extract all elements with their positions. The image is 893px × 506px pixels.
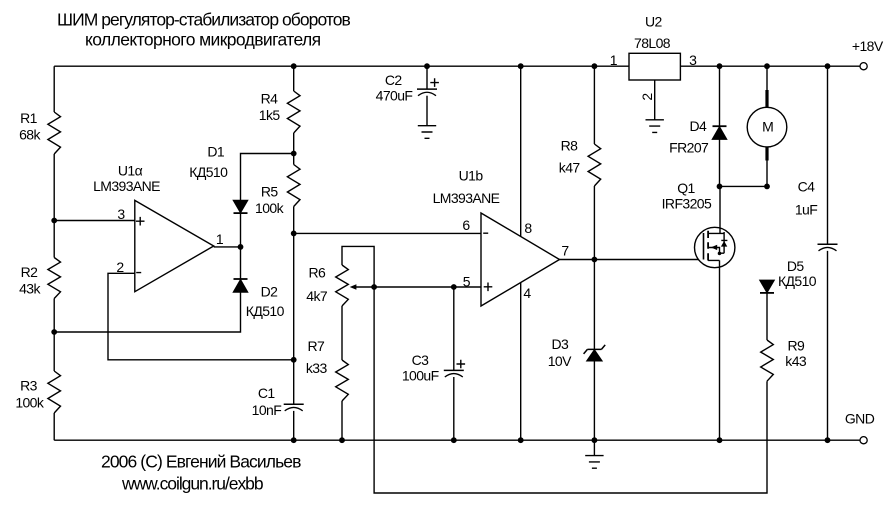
svg-text:R6: R6	[308, 265, 326, 281]
resistor R5	[287, 165, 300, 207]
node R7 bottom rail	[339, 437, 345, 443]
node pin7/R8/D3 junction	[592, 257, 598, 263]
node Q1 source bottom rail	[717, 437, 723, 443]
node R4 top rail	[291, 63, 297, 69]
svg-text:10V: 10V	[548, 353, 572, 369]
svg-text:R5: R5	[261, 184, 279, 200]
wire C3 bottom	[453, 377, 455, 440]
wire pin 4 supply	[520, 283, 522, 441]
node R5/pin6 junction	[291, 231, 297, 237]
wire pin 7 output	[560, 259, 704, 261]
potentiometer R6	[336, 265, 349, 306]
wire R6-R7	[341, 306, 343, 360]
resistor R3	[48, 371, 61, 413]
transistor Q1 body	[695, 227, 735, 267]
svg-text:C4: C4	[798, 179, 816, 195]
wire D3 top	[593, 260, 595, 350]
wire C2 top	[426, 66, 428, 89]
svg-text:1: 1	[610, 52, 618, 68]
transistor Q1 substrate arrow	[708, 248, 719, 254]
resistor R4	[287, 91, 300, 133]
wire pin 8 supply	[520, 66, 522, 236]
wire Q1 source	[719, 260, 721, 440]
svg-text:100k: 100k	[255, 200, 285, 216]
svg-text:КД510: КД510	[189, 164, 228, 180]
wire pin 3 input	[54, 220, 135, 222]
svg-text:5: 5	[463, 273, 471, 289]
svg-text:k47: k47	[559, 159, 581, 175]
svg-text:ШИМ регулятор-стабилизатор обо: ШИМ регулятор-стабилизатор оборотов	[57, 10, 350, 30]
capacitor C2	[417, 88, 437, 90]
svg-text:2: 2	[639, 93, 655, 101]
svg-text:R2: R2	[21, 264, 39, 280]
wire D4 top	[719, 66, 721, 126]
wire drain node	[720, 185, 768, 187]
svg-text:M: M	[762, 119, 773, 135]
wire C4 bottom	[827, 251, 829, 440]
svg-text:U1α: U1α	[118, 162, 143, 178]
wire R5 bottom to C1	[293, 207, 295, 405]
resistor R7	[336, 360, 349, 401]
resistor R1	[48, 112, 61, 154]
resistor R8	[588, 144, 601, 186]
wire pin 5 input	[374, 286, 481, 288]
svg-text:IRF3205: IRF3205	[662, 196, 712, 212]
wire D3 bottom	[593, 361, 595, 440]
wire R7 bottom	[341, 401, 343, 440]
wire R8 to pin7 node	[593, 186, 595, 260]
regulator U2 78L08	[629, 53, 680, 80]
wire pin 2 input loop	[108, 273, 294, 360]
svg-text:4k7: 4k7	[306, 288, 328, 304]
resistor R2	[48, 258, 61, 299]
svg-text:k33: k33	[306, 360, 328, 376]
node Q1 source junction	[718, 252, 722, 256]
wire +18V top rail (right of U2)	[680, 65, 859, 67]
wire D1 top to R4/R5 node	[241, 154, 294, 201]
svg-text:R3: R3	[20, 378, 38, 394]
svg-text:2006 (С) Евгений Васильев: 2006 (С) Евгений Васильев	[101, 452, 301, 472]
diode D1	[234, 201, 248, 213]
svg-text:k43: k43	[785, 353, 807, 369]
svg-text:4: 4	[523, 285, 531, 301]
terminal +18V	[860, 63, 867, 70]
node D4 top rail	[717, 63, 723, 69]
svg-text:C1: C1	[258, 385, 276, 401]
svg-text:470uF: 470uF	[376, 87, 413, 103]
svg-text:www.coilgun.ru/exbb: www.coilgun.ru/exbb	[121, 474, 263, 494]
svg-text:3: 3	[689, 52, 697, 68]
node pin8 top rail	[518, 63, 524, 69]
op-amp U1b	[481, 213, 560, 306]
svg-text:R4: R4	[261, 91, 279, 107]
svg-text:R1: R1	[20, 110, 38, 126]
svg-text:D1: D1	[207, 144, 225, 160]
wire U2 pin 2 ground	[654, 80, 656, 120]
wire D2 return to divider	[54, 292, 240, 332]
wire GND bottom rail	[54, 439, 860, 441]
transistor Q1 drain	[708, 186, 724, 233]
zener diode D3	[584, 345, 606, 354]
svg-text:коллекторного микродвигателя: коллекторного микродвигателя	[85, 29, 321, 49]
svg-text:78L08: 78L08	[634, 35, 671, 51]
diode D4	[713, 125, 727, 127]
diode D2	[234, 278, 248, 280]
terminal GND	[860, 437, 867, 444]
node R4/R5/D1 junction	[291, 151, 297, 157]
svg-text:C2: C2	[385, 72, 403, 88]
svg-text:1k5: 1k5	[259, 107, 281, 123]
transistor Q1 body diode	[708, 232, 727, 260]
node C2 top rail	[424, 63, 430, 69]
svg-text:1uF: 1uF	[795, 202, 817, 218]
diode D5	[760, 280, 774, 292]
svg-text:D3: D3	[551, 336, 569, 352]
svg-text:D2: D2	[261, 284, 279, 300]
wire ground stub	[593, 440, 595, 455]
svg-text:R7: R7	[307, 338, 325, 354]
node C4 top rail	[825, 63, 831, 69]
wire C4 top	[827, 66, 829, 244]
capacitor C4	[818, 243, 838, 245]
node pin1/D1/D2 junction	[238, 244, 244, 250]
node D3 bottom rail	[592, 437, 598, 443]
capacitor C3	[444, 369, 464, 371]
svg-text:+18V: +18V	[852, 38, 884, 54]
svg-text:LM393ANE: LM393ANE	[93, 178, 160, 194]
svg-text:D4: D4	[689, 118, 707, 134]
svg-text:КД510: КД510	[246, 303, 285, 319]
op-amp U1a	[135, 200, 214, 291]
wire motor bottom	[766, 161, 768, 187]
node C3 top junction	[451, 284, 457, 290]
node D4/drain junction	[717, 184, 723, 190]
wire R6 wiper loop	[342, 246, 374, 287]
wire C2 to ground	[426, 96, 428, 126]
svg-text:2: 2	[116, 259, 124, 275]
transistor Q1 gate	[703, 233, 705, 260]
wire C3 top	[453, 287, 455, 370]
node divider tap D2 return	[51, 329, 57, 335]
node pin4 bottom rail	[518, 437, 524, 443]
svg-text:LM393ANE: LM393ANE	[433, 190, 500, 206]
svg-text:Q1: Q1	[677, 180, 695, 196]
svg-text:U1b: U1b	[459, 167, 484, 183]
node motor/drain junction	[764, 184, 770, 190]
capacitor C1	[284, 403, 304, 405]
svg-text:R9: R9	[787, 337, 805, 353]
transistor Q1 channel	[707, 231, 709, 261]
svg-text:100uF: 100uF	[402, 368, 439, 384]
svg-text:43k: 43k	[19, 280, 41, 296]
svg-text:7: 7	[561, 243, 569, 259]
node C3 bottom rail	[451, 437, 457, 443]
wire +8V top rail (left of U2)	[54, 65, 629, 67]
wire D1-D2 middle	[240, 213, 242, 279]
node C1 bottom rail	[291, 437, 297, 443]
wire D4 bottom	[719, 139, 721, 186]
svg-text:КД510: КД510	[778, 273, 817, 289]
svg-text:6: 6	[462, 217, 470, 233]
svg-text:8: 8	[524, 220, 532, 236]
svg-text:68k: 68k	[19, 127, 41, 143]
svg-text:10nF: 10nF	[252, 402, 282, 418]
node C4 bottom rail	[825, 437, 831, 443]
node wiper/pin5 junction	[371, 284, 377, 290]
wire motor top	[766, 66, 768, 90]
node R8 top rail	[592, 63, 598, 69]
svg-text:3: 3	[117, 206, 125, 222]
wire C1 bottom	[293, 411, 295, 440]
motor M1	[747, 107, 787, 147]
resistor R9	[761, 340, 774, 381]
svg-text:FR207: FR207	[669, 139, 709, 155]
wire left divider rail segments	[53, 66, 55, 440]
motor M1 terminals	[765, 90, 768, 161]
wire pin 6 input	[294, 232, 481, 234]
node motor top rail	[764, 63, 770, 69]
svg-text:100k: 100k	[15, 394, 45, 410]
node pin2/C1 junction	[291, 357, 297, 363]
svg-text:U2: U2	[645, 14, 663, 30]
svg-text:R8: R8	[561, 138, 579, 154]
svg-text:GND: GND	[845, 411, 875, 427]
svg-text:C3: C3	[412, 352, 430, 368]
node divider tap pin3	[51, 218, 57, 224]
wire D5-R9	[766, 294, 768, 341]
svg-text:1: 1	[216, 231, 224, 247]
wire pin 1 output	[214, 246, 241, 248]
wire R8 top	[593, 66, 595, 144]
ground symbol bottom rail	[585, 456, 603, 469]
svg-text:D5: D5	[787, 258, 805, 274]
wire R4-R5	[293, 133, 295, 165]
wiper arrow R6	[352, 286, 374, 288]
wire feedback loop bottom	[374, 287, 767, 493]
wire R4 top	[293, 66, 295, 91]
ground symbol under U2	[646, 120, 664, 133]
ground symbol under C2	[418, 126, 436, 139]
